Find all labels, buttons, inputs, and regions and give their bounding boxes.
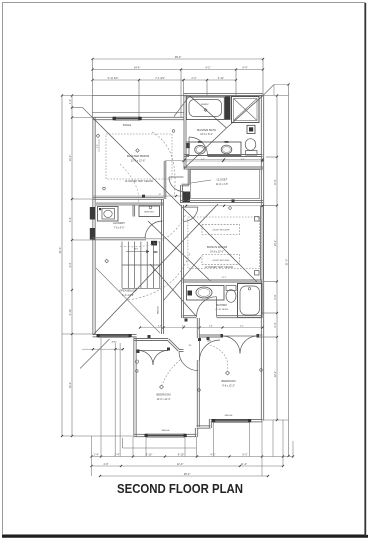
svg-text:2868: 2868 bbox=[207, 341, 211, 343]
svg-text:12' RAISED TRAY CEILING: 12' RAISED TRAY CEILING bbox=[205, 266, 234, 269]
svg-text:SINGLE: SINGLE bbox=[123, 125, 132, 127]
svg-text:14'-4": 14'-4" bbox=[134, 65, 141, 69]
svg-text:6'-4": 6'-4" bbox=[273, 179, 277, 184]
svg-text:BEDROOM: BEDROOM bbox=[157, 393, 172, 397]
svg-text:4'-1": 4'-1" bbox=[201, 159, 205, 161]
svg-text:12' RAISED TRAY CEILING: 12' RAISED TRAY CEILING bbox=[125, 180, 154, 183]
svg-text:14'-0 x 12'-4": 14'-0 x 12'-4" bbox=[157, 398, 171, 401]
svg-text:4'-1": 4'-1" bbox=[241, 159, 245, 161]
svg-text:4'-0": 4'-0" bbox=[103, 462, 108, 466]
svg-text:6'-11 3/4": 6'-11 3/4" bbox=[108, 76, 119, 80]
svg-text:OPEN BELOW: OPEN BELOW bbox=[119, 289, 137, 293]
svg-text:BONUS ROOM: BONUS ROOM bbox=[207, 245, 228, 249]
svg-text:DN: DN bbox=[154, 250, 158, 254]
svg-text:BEDROOM: BEDROOM bbox=[222, 379, 237, 383]
svg-text:28'-0": 28'-0" bbox=[175, 55, 182, 59]
svg-text:11'-4": 11'-4" bbox=[241, 462, 247, 466]
svg-text:MASTER BATH: MASTER BATH bbox=[197, 128, 216, 132]
svg-text:1'-4": 1'-4" bbox=[93, 452, 98, 456]
svg-text:13 R: 13 R bbox=[134, 249, 139, 251]
svg-text:4'-2": 4'-2" bbox=[240, 325, 244, 327]
svg-text:CLOSET: CLOSET bbox=[217, 178, 228, 182]
svg-text:12'-0": 12'-0" bbox=[177, 462, 184, 466]
svg-text:SINGLE: SINGLE bbox=[161, 430, 170, 432]
svg-text:2'-2": 2'-2" bbox=[97, 144, 99, 148]
svg-text:SHELVES: SHELVES bbox=[144, 211, 154, 213]
svg-text:LAUNDRY: LAUNDRY bbox=[113, 221, 126, 225]
svg-text:10'-2": 10'-2" bbox=[68, 382, 72, 389]
svg-text:4'-2": 4'-2" bbox=[205, 65, 210, 69]
svg-text:9'-4": 9'-4" bbox=[242, 65, 247, 69]
svg-text:MASTER BDRM: MASTER BDRM bbox=[127, 154, 150, 158]
svg-text:+2'-10" HDRS: +2'-10" HDRS bbox=[215, 309, 229, 311]
svg-text:10'-2": 10'-2" bbox=[273, 240, 277, 247]
svg-text:2'-11": 2'-11" bbox=[218, 76, 224, 80]
svg-text:19'-8 x 12'-0": 19'-8 x 12'-0" bbox=[210, 251, 224, 254]
svg-text:2'-2": 2'-2" bbox=[191, 76, 196, 80]
svg-text:4'-1": 4'-1" bbox=[210, 452, 215, 456]
svg-text:SINGLE: SINGLE bbox=[224, 415, 233, 417]
svg-text:4'-4 x 12'-6": 4'-4 x 12'-6" bbox=[122, 295, 134, 297]
svg-text:4'-4": 4'-4" bbox=[68, 262, 72, 267]
svg-text:6'-10": 6'-10" bbox=[178, 452, 185, 456]
svg-text:10'-2": 10'-2" bbox=[68, 155, 72, 162]
svg-text:13'-6 x 12'-6": 13'-6 x 12'-6" bbox=[131, 160, 146, 163]
svg-text:5'-10": 5'-10" bbox=[146, 452, 153, 456]
svg-text:2'-6": 2'-6" bbox=[209, 325, 213, 327]
svg-text:12'-2": 12'-2" bbox=[273, 371, 277, 378]
svg-text:5'-3": 5'-3" bbox=[273, 294, 277, 299]
svg-text:2'-4": 2'-4" bbox=[273, 322, 277, 327]
svg-text:28'-0": 28'-0" bbox=[184, 472, 191, 476]
svg-text:9'-2": 9'-2" bbox=[242, 452, 247, 456]
svg-text:1'-0": 1'-0" bbox=[68, 99, 72, 104]
svg-text:SECOND FLOOR PLAN: SECOND FLOOR PLAN bbox=[117, 482, 243, 496]
svg-text:RAILING: RAILING bbox=[157, 306, 160, 314]
svg-text:7'-1 3/4": 7'-1 3/4" bbox=[155, 76, 165, 80]
svg-text:11'-6 x 4'-6": 11'-6 x 4'-6" bbox=[216, 183, 228, 186]
svg-text:BATHRM: BATHRM bbox=[216, 304, 226, 307]
svg-text:3'-10": 3'-10" bbox=[68, 309, 72, 316]
svg-text:24"x48" SKYLIGHT: 24"x48" SKYLIGHT bbox=[212, 230, 230, 232]
svg-text:31'-0": 31'-0" bbox=[284, 259, 288, 266]
svg-text:4'-8": 4'-8" bbox=[158, 325, 162, 327]
svg-text:9'-8 x 12'-2": 9'-8 x 12'-2" bbox=[222, 385, 235, 388]
svg-text:7'-6 x 6'-0": 7'-6 x 6'-0" bbox=[114, 227, 125, 229]
svg-text:4'-2": 4'-2" bbox=[182, 325, 186, 327]
svg-text:11'-7": 11'-7" bbox=[222, 277, 227, 279]
svg-text:24"x48" SKYLIGHT: 24"x48" SKYLIGHT bbox=[212, 260, 230, 262]
svg-text:12": 12" bbox=[159, 194, 162, 196]
svg-text:4'-0": 4'-0" bbox=[68, 217, 72, 222]
svg-text:10'-6 x 8'-4": 10'-6 x 8'-4" bbox=[200, 133, 213, 136]
svg-text:WHIRLP: WHIRLP bbox=[201, 104, 209, 106]
svg-text:31'-0": 31'-0" bbox=[58, 247, 62, 254]
svg-text:4065: 4065 bbox=[112, 342, 118, 344]
